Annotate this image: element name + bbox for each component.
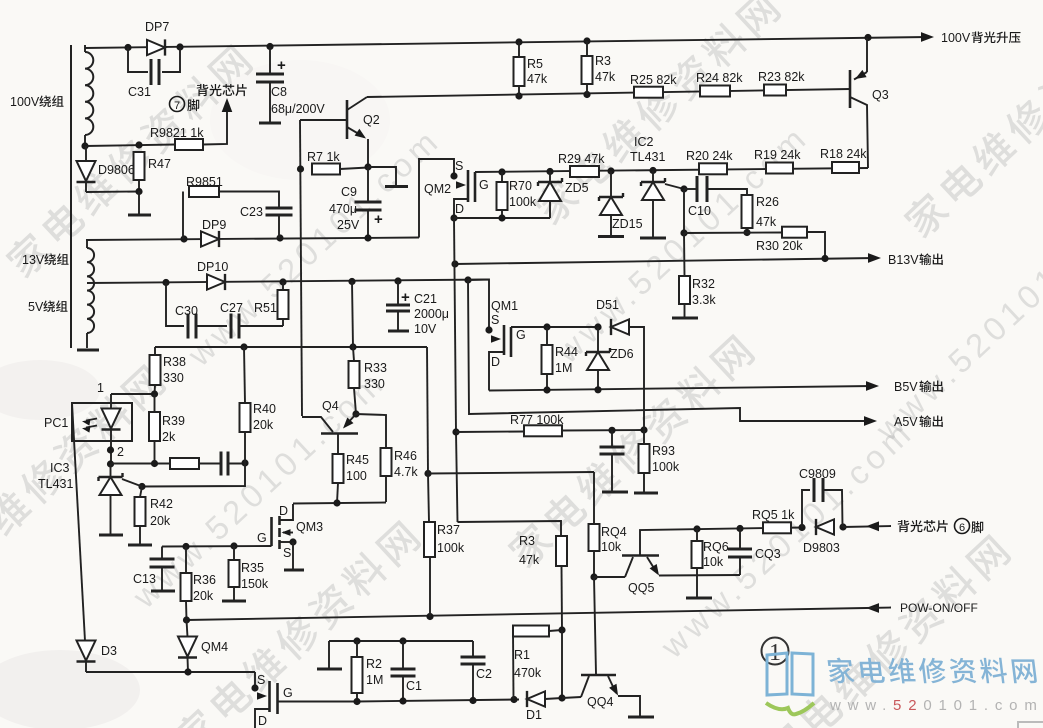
wire bus 347 xyxy=(155,346,427,348)
svg-text:2: 2 xyxy=(117,445,124,459)
wire D9806 to R47 bottom xyxy=(86,191,139,194)
svg-text:Q4: Q4 xyxy=(322,399,339,413)
transformer core xyxy=(70,45,72,348)
svg-text:D51: D51 xyxy=(596,298,619,312)
svg-text:470k: 470k xyxy=(514,666,542,680)
junction dots xyxy=(81,142,88,149)
svg-text:R36: R36 xyxy=(193,573,216,587)
junction dots DP10 bus xyxy=(162,279,169,286)
svg-text:13V: 13V xyxy=(22,253,45,267)
svg-text:D9806: D9806 xyxy=(98,163,135,177)
resistor R70 xyxy=(501,172,503,182)
PC1 arrows xyxy=(86,419,97,421)
svg-text:QQ5: QQ5 xyxy=(628,581,654,595)
resistor R1 xyxy=(513,626,549,637)
wire 473 row xyxy=(424,470,431,477)
diode D9806 xyxy=(85,146,87,162)
svg-text:TL431: TL431 xyxy=(38,477,73,491)
capacitor feedback xyxy=(220,452,223,476)
diode QM4 xyxy=(187,620,188,637)
junction dots R77 row xyxy=(608,427,615,434)
wire R30 row xyxy=(684,232,782,235)
capacitor C8 xyxy=(269,47,271,74)
wire pin1 to R38 xyxy=(111,393,155,395)
wire POW-ON/OFF bus xyxy=(187,608,867,620)
logo book icon xyxy=(767,653,813,695)
wire D3 QM4 bottom row xyxy=(86,671,255,673)
logo text 家电维修资料网 xyxy=(827,658,1038,684)
svg-text:R35: R35 xyxy=(241,561,264,575)
arrow A5V output xyxy=(864,416,877,426)
junction dot R7 right xyxy=(364,163,371,170)
diode D9803 xyxy=(816,519,834,534)
svg-text:R37: R37 xyxy=(437,523,460,537)
resistor R36 xyxy=(185,547,187,574)
ground R47 xyxy=(138,191,140,214)
svg-text:10k: 10k xyxy=(601,540,622,554)
svg-text:TL431: TL431 xyxy=(630,150,665,164)
svg-text:47k: 47k xyxy=(527,72,548,86)
svg-text:+: + xyxy=(374,211,383,228)
svg-text:C9: C9 xyxy=(341,185,357,199)
svg-text:R44: R44 xyxy=(555,345,578,359)
svg-text:20k: 20k xyxy=(150,514,171,528)
junction dots gate row xyxy=(498,168,505,175)
resistor R5 xyxy=(518,42,520,57)
resistor R37 xyxy=(427,347,428,474)
resistor R42 xyxy=(140,487,142,498)
svg-text:RQ4: RQ4 xyxy=(601,525,627,539)
capacitor CQ3 xyxy=(739,529,741,550)
arrow output 100V xyxy=(921,32,934,42)
transistor QQ4 xyxy=(562,697,581,698)
svg-text:B13V: B13V xyxy=(888,253,919,267)
resistor R26 xyxy=(742,195,753,228)
ground stub R2 row xyxy=(328,641,330,668)
svg-text:S: S xyxy=(283,546,291,560)
diode D51 xyxy=(611,319,629,334)
wire QM2 bottom xyxy=(454,217,550,219)
svg-text:R3: R3 xyxy=(595,54,611,68)
wire QM2 drain column xyxy=(454,218,456,432)
capacitor C21 xyxy=(397,281,399,305)
wire RQ4 bottom to QQ5 collector xyxy=(590,573,597,580)
svg-text:G: G xyxy=(516,328,526,342)
svg-text:C21: C21 xyxy=(414,292,437,306)
svg-text:R2: R2 xyxy=(366,657,382,671)
resistor R7 xyxy=(312,164,340,175)
resistor unlabeled feedback xyxy=(170,458,199,469)
svg-text:150k: 150k xyxy=(241,577,269,591)
label 背光芯片6脚 xyxy=(898,520,948,532)
resistor R9821 xyxy=(175,139,203,150)
label 背光芯片7脚 xyxy=(197,84,247,96)
svg-text:R26: R26 xyxy=(756,195,779,209)
MOSFET QM3 xyxy=(280,504,293,520)
resistor R29 xyxy=(570,166,599,177)
svg-text:R33: R33 xyxy=(364,361,387,375)
wire second bus to Q3 base xyxy=(367,89,850,97)
capacitor C10 xyxy=(680,185,687,192)
diode DP9 xyxy=(201,231,219,246)
svg-text:+: + xyxy=(401,289,410,306)
wire QM1 gate row xyxy=(511,326,598,328)
svg-text:R24 82k: R24 82k xyxy=(696,71,743,85)
optocoupler PC1 box xyxy=(72,403,132,441)
zener ZD6 xyxy=(597,327,599,352)
svg-text:R38: R38 xyxy=(163,355,186,369)
resistor R23 xyxy=(764,85,786,96)
diode DP7 xyxy=(147,40,165,55)
svg-text:QM4: QM4 xyxy=(201,640,228,654)
svg-text:G: G xyxy=(283,686,293,700)
svg-text:47k: 47k xyxy=(756,215,777,229)
resistor R77 xyxy=(456,431,524,434)
wire top bus 100V xyxy=(85,37,928,48)
svg-text:47k: 47k xyxy=(519,553,540,567)
svg-text:100V: 100V xyxy=(10,95,40,109)
wire QM2 gate row xyxy=(475,168,868,172)
svg-text:4.7k: 4.7k xyxy=(394,465,418,479)
svg-text:QM1: QM1 xyxy=(491,299,518,313)
capacitor C9 xyxy=(367,167,369,202)
svg-text:S: S xyxy=(491,313,499,327)
svg-text:6: 6 xyxy=(959,522,965,534)
wire to backlight pin7 arrow xyxy=(203,111,227,145)
PC1 LED xyxy=(110,394,112,410)
zener ZD5 xyxy=(549,172,551,183)
junction dot QM2 drain xyxy=(450,214,457,221)
resistor R40 xyxy=(244,347,245,403)
svg-text:+: + xyxy=(277,57,286,74)
figure number 1 circled xyxy=(762,638,789,665)
svg-text:C8: C8 xyxy=(271,85,287,99)
resistor R25 xyxy=(634,87,663,98)
svg-text:G: G xyxy=(257,531,267,545)
svg-text:100k: 100k xyxy=(437,541,465,555)
wire feedback row 463 xyxy=(107,460,114,467)
svg-text:D9803: D9803 xyxy=(803,541,840,555)
svg-text:POW-ON/OFF: POW-ON/OFF xyxy=(900,601,978,615)
wire R2 C1 row top xyxy=(329,640,473,642)
transistor Q4 xyxy=(352,410,359,417)
wire QQ4 base column xyxy=(594,577,596,674)
capacitor C23 xyxy=(219,192,279,209)
resistor R9851 branch xyxy=(182,192,184,240)
svg-text:R39: R39 xyxy=(162,414,185,428)
svg-text:R25 82k: R25 82k xyxy=(630,73,677,87)
resistor R24 xyxy=(700,86,730,97)
svg-text:1M: 1M xyxy=(555,361,572,375)
svg-text:470μ: 470μ xyxy=(329,202,357,216)
svg-text:D: D xyxy=(491,355,500,369)
resistor RQ6 xyxy=(696,529,698,541)
svg-text:DP10: DP10 xyxy=(197,260,228,274)
wire 522 row to R3 xyxy=(458,521,562,536)
svg-text:20k: 20k xyxy=(253,418,274,432)
resistor R18 xyxy=(832,162,859,173)
svg-text:10k: 10k xyxy=(703,555,724,569)
transistor Q2 xyxy=(346,100,349,139)
svg-text:100k: 100k xyxy=(652,460,680,474)
diode DP10 xyxy=(207,274,225,289)
svg-text:S: S xyxy=(257,673,265,687)
resistor R3 top xyxy=(586,41,588,56)
zener ZD15 xyxy=(610,171,612,197)
capacitor C13 xyxy=(161,547,163,560)
svg-text:RQ5 1k: RQ5 1k xyxy=(752,508,795,522)
resistor R33 xyxy=(353,347,354,361)
resistor R93 xyxy=(643,430,645,444)
svg-text:C1: C1 xyxy=(406,679,422,693)
svg-text:10V: 10V xyxy=(414,322,437,336)
wire QM1 bottom to B5V xyxy=(489,386,873,391)
svg-text:2000μ: 2000μ xyxy=(414,307,449,321)
resistor R30 xyxy=(782,227,807,238)
capacitor C9809 loop xyxy=(802,490,810,528)
svg-text:100V: 100V xyxy=(941,31,971,45)
diode D1 xyxy=(527,691,545,706)
svg-text:S: S xyxy=(455,159,463,173)
resistor R44 xyxy=(546,327,548,345)
resistor R3 bottom xyxy=(556,536,567,566)
svg-text:D: D xyxy=(279,504,288,518)
winding 100V coil xyxy=(85,52,93,135)
watermark (decorative) xyxy=(2,42,255,281)
svg-text:R32: R32 xyxy=(692,277,715,291)
svg-text:D: D xyxy=(258,714,267,728)
resistor R20 xyxy=(699,163,727,174)
svg-text:C9809: C9809 xyxy=(799,467,836,481)
svg-text:R45: R45 xyxy=(346,453,369,467)
svg-text:C2: C2 xyxy=(476,667,492,681)
svg-text:R20 24k: R20 24k xyxy=(686,149,733,163)
svg-text:C31: C31 xyxy=(128,85,151,99)
svg-text:www.520101.com: www.520101.com xyxy=(829,697,1043,714)
C8 bottom stub xyxy=(259,122,281,125)
svg-text:2k: 2k xyxy=(162,430,176,444)
svg-text:1: 1 xyxy=(97,381,104,395)
svg-text:R7 1k: R7 1k xyxy=(307,150,340,164)
wire bottom row xyxy=(357,700,519,702)
resistor R45 xyxy=(333,454,344,483)
svg-text:D: D xyxy=(455,202,464,216)
resistor R35 xyxy=(233,546,235,560)
svg-text:C10: C10 xyxy=(688,204,711,218)
shunt regulator IC3 TL431 xyxy=(110,464,112,477)
IC3 ref wire xyxy=(122,479,142,487)
svg-text:25V: 25V xyxy=(337,218,360,232)
svg-text:QM3: QM3 xyxy=(296,520,323,534)
svg-text:R42: R42 xyxy=(150,497,173,511)
svg-text:R9821 1k: R9821 1k xyxy=(150,126,204,140)
IC2 ref wire xyxy=(665,184,684,189)
junction dots top bus xyxy=(124,44,131,51)
svg-text:B5V: B5V xyxy=(894,380,918,394)
wire QM3 drain row xyxy=(293,503,386,504)
svg-text:R47: R47 xyxy=(148,157,171,171)
svg-text:C13: C13 xyxy=(133,572,156,586)
transistor Q3 xyxy=(849,70,852,108)
resistor R19 xyxy=(766,163,793,174)
wire Q2 base from vertical xyxy=(300,119,347,121)
junction dots second bus xyxy=(515,92,522,99)
svg-text:PC1: PC1 xyxy=(44,416,68,430)
svg-text:R5: R5 xyxy=(527,57,543,71)
resistor R46 xyxy=(356,414,386,448)
resistor R38 xyxy=(154,347,156,355)
svg-text:100: 100 xyxy=(346,469,367,483)
wire R40 node to IC3 ref xyxy=(142,463,245,487)
junction dots DP9 row xyxy=(180,235,187,242)
wire Q2 base vertical to Q4 collector xyxy=(300,120,302,416)
svg-text:1M: 1M xyxy=(366,673,383,687)
svg-text:DP7: DP7 xyxy=(145,20,169,34)
wire bottom MOSFET gate row xyxy=(278,701,358,703)
resistor RQ5 xyxy=(763,522,791,533)
wire DP9 row xyxy=(86,238,419,241)
capacitor C31 loop xyxy=(128,48,148,73)
svg-text:330: 330 xyxy=(364,377,385,391)
svg-text:QM2: QM2 xyxy=(424,182,451,196)
svg-text:C23: C23 xyxy=(240,205,263,219)
arrow B5V output xyxy=(866,381,879,391)
transistor QQ5 xyxy=(622,554,659,557)
svg-text:100k: 100k xyxy=(509,195,537,209)
junction dot R40 bottom xyxy=(241,459,248,466)
svg-text:RQ6: RQ6 xyxy=(703,540,729,554)
svg-text:R3: R3 xyxy=(519,534,535,548)
wire QM1 source riser xyxy=(468,280,489,331)
svg-text:R30 20k: R30 20k xyxy=(756,239,803,253)
wire PC1 left vertical to D3 xyxy=(72,403,85,641)
wire C10 node down xyxy=(683,189,685,233)
resistor R39 xyxy=(154,394,156,412)
capacitor bypass at R93 xyxy=(611,430,613,447)
svg-text:7: 7 xyxy=(174,100,180,112)
wire backlight pin6 arrow xyxy=(843,526,891,527)
svg-text:R51: R51 xyxy=(254,301,277,315)
Q2 emitter stub ground xyxy=(368,167,396,185)
resistor RQ4 xyxy=(593,472,595,524)
resistor R47 xyxy=(134,152,145,180)
svg-text:R23 82k: R23 82k xyxy=(758,70,805,84)
svg-text:68μ/200V: 68μ/200V xyxy=(271,102,325,116)
svg-text:C30: C30 xyxy=(175,304,198,318)
winding 13V/5V coil xyxy=(87,248,94,333)
wire B13V output xyxy=(455,258,875,264)
svg-text:IC2: IC2 xyxy=(634,135,654,149)
svg-text:5V: 5V xyxy=(28,300,44,314)
wire DP10 bus xyxy=(87,280,489,284)
wire R33 column xyxy=(352,282,353,348)
svg-text:R70: R70 xyxy=(509,179,532,193)
svg-text:R1: R1 xyxy=(514,648,530,662)
corner box fragment xyxy=(1018,722,1043,728)
svg-text:R46: R46 xyxy=(394,449,417,463)
svg-text:ZD6: ZD6 xyxy=(610,347,634,361)
svg-text:R93: R93 xyxy=(652,444,675,458)
resistor R32 xyxy=(683,233,686,276)
capacitor C1 xyxy=(402,641,404,669)
capacitors C30 C27 and R51 loop xyxy=(166,283,184,327)
svg-text:D1: D1 xyxy=(526,708,542,722)
svg-text:ZD15: ZD15 xyxy=(612,217,643,231)
junction dot R47 bottom xyxy=(135,188,142,195)
svg-text:DP9: DP9 xyxy=(202,218,226,232)
arrow POW input xyxy=(866,603,879,613)
wire winding bottom row xyxy=(85,145,175,147)
svg-text:G: G xyxy=(479,178,489,192)
svg-text:R77 100k: R77 100k xyxy=(510,413,564,427)
svg-text:IC3: IC3 xyxy=(50,461,70,475)
capacitor C2 xyxy=(472,641,474,657)
svg-text:20k: 20k xyxy=(193,589,214,603)
wire QM2 source riser xyxy=(419,159,454,238)
resistor R2 xyxy=(356,641,358,657)
wire R3 bottom to D1 node xyxy=(561,630,563,698)
svg-text:Q3: Q3 xyxy=(872,88,889,102)
svg-text:CQ3: CQ3 xyxy=(755,547,781,561)
svg-text:330: 330 xyxy=(163,371,184,385)
svg-text:C27: C27 xyxy=(220,301,243,315)
svg-text:D3: D3 xyxy=(101,644,117,658)
svg-text:R19 24k: R19 24k xyxy=(754,148,801,162)
svg-text:3.3k: 3.3k xyxy=(692,293,716,307)
svg-text:A5V: A5V xyxy=(894,415,918,429)
svg-text:R18 24k: R18 24k xyxy=(820,147,867,161)
svg-text:47k: 47k xyxy=(595,70,616,84)
svg-text:QQ4: QQ4 xyxy=(587,695,613,709)
ground transformer xyxy=(77,349,99,352)
svg-text:Q2: Q2 xyxy=(363,113,380,127)
svg-text:R40: R40 xyxy=(253,402,276,416)
wire QQ5 emitter to CQ3 xyxy=(659,574,740,577)
svg-text:R29 47k: R29 47k xyxy=(558,152,605,166)
wire QM3 gate row xyxy=(162,545,272,548)
resistor R51 xyxy=(282,282,284,290)
wire A5V branch xyxy=(468,280,871,421)
junction dot R7 left xyxy=(297,165,304,172)
svg-text:ZD5: ZD5 xyxy=(565,181,589,195)
svg-text:R9851: R9851 xyxy=(186,175,223,189)
diode D3 xyxy=(77,641,96,661)
wire to bottom MOSFET source xyxy=(254,672,256,688)
wire QQ5 base row dots xyxy=(693,525,700,532)
